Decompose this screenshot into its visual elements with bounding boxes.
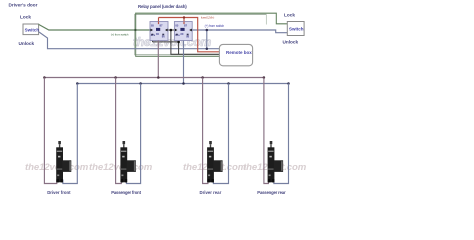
- wire black drop to bus: [178, 42, 180, 54]
- svg-text:Driver front: Driver front: [47, 190, 71, 195]
- svg-text:87: 87: [160, 23, 164, 27]
- svg-text:30: 30: [156, 32, 160, 36]
- svg-text:Switch: Switch: [289, 26, 304, 31]
- wire blue drop actuator1: [63, 84, 77, 184]
- svg-text:Remote box: Remote box: [226, 50, 252, 55]
- wire blue unlock: driver switch to remote box: [39, 32, 219, 49]
- node green junction: [134, 29, 136, 31]
- wire green lock: driver switch to relay U1: [39, 24, 150, 30]
- svg-text:Passenger rear: Passenger rear: [257, 190, 286, 195]
- relay panel box: [135, 14, 267, 54]
- svg-text:Unlock: Unlock: [19, 41, 35, 46]
- node bus1 dots: [43, 76, 265, 79]
- wire maroon drop actuator2: [116, 78, 122, 184]
- wire black between relay coils: [168, 29, 174, 31]
- node blue junction lower: [206, 47, 209, 50]
- svg-text:87: 87: [184, 23, 188, 27]
- remote box: [219, 44, 252, 65]
- node blue junction upper: [206, 29, 209, 32]
- wire maroon drop actuator3: [203, 78, 208, 184]
- svg-text:Switch: Switch: [25, 27, 40, 32]
- svg-text:(+) from switch: (+) from switch: [205, 24, 225, 28]
- node bus2 dots: [76, 82, 290, 85]
- svg-text:Driver's door: Driver's door: [9, 3, 38, 8]
- watermark row the12volt.com x4: [25, 162, 307, 173]
- relay U2: [174, 22, 192, 41]
- svg-text:(+) from switch: (+) from switch: [111, 32, 129, 36]
- node red junction: [183, 16, 185, 18]
- actuator M2 passenger front: [120, 141, 135, 182]
- svg-text:Passenger front: Passenger front: [111, 190, 141, 195]
- wire maroon drop actuator4: [264, 78, 269, 184]
- actuator M3 driver rear: [207, 141, 222, 182]
- wire bus1 maroon: [44, 77, 264, 79]
- wire blue drop actuator2: [126, 84, 140, 184]
- actuator M4 passenger rear: [268, 141, 284, 182]
- svg-text:Relay panel (under dash): Relay panel (under dash): [138, 4, 187, 9]
- wire red stub relay U1: [158, 18, 160, 22]
- svg-text:fused 12V(+): fused 12V(+): [201, 16, 214, 20]
- wire maroon relay U1 output to bus1: [157, 41, 159, 78]
- wire blue drop actuator3: [213, 84, 228, 184]
- wire blue drop actuator4: [274, 84, 289, 184]
- node black junction mid: [170, 29, 173, 32]
- actuator M1 driver front: [56, 141, 71, 182]
- svg-text:Unlock: Unlock: [283, 40, 299, 45]
- svg-text:Driver rear: Driver rear: [200, 190, 222, 195]
- svg-text:30: 30: [180, 32, 184, 36]
- wire red fused 12V: relay tops to remote box: [159, 18, 220, 52]
- wire red stub relay U2: [183, 18, 185, 22]
- svg-text:Lock: Lock: [20, 15, 31, 20]
- wire black down to remote box: [171, 30, 220, 54]
- node black junction lower: [177, 41, 180, 44]
- wire green branch up to passenger lock: [136, 13, 288, 30]
- wire maroon drop actuator1: [44, 78, 56, 184]
- wire black stub relay1 bottom: [152, 41, 154, 42]
- svg-text:Lock: Lock: [284, 12, 295, 17]
- relay U1: [150, 22, 168, 41]
- wire blue: relay U2 to passenger switch: [192, 30, 287, 33]
- switch SW2 (passenger door): [287, 22, 304, 36]
- switch SW1 (driver's door): [23, 24, 39, 35]
- wire blue vertical branch to relay line: [206, 30, 208, 49]
- wire green branch down to remote box: [136, 30, 220, 56]
- wire bus2 blue: [77, 83, 288, 85]
- wire black relay bottoms: [153, 41, 179, 43]
- wire blue relay U2 output to bus2: [183, 41, 185, 84]
